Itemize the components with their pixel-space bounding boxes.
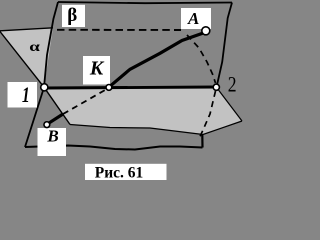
alpha right edge hidden behind beta (dashed) [187, 35, 216, 83]
svg-text:α: α [29, 39, 40, 55]
plane alpha fill (triangle part above line 1-2) [0, 28, 53, 87]
svg-text:Рис. 61: Рис. 61 [95, 164, 144, 181]
plane beta top edge [58, 2, 232, 3]
plane beta right edge lower solid tip [201, 135, 203, 148]
caption box [85, 164, 167, 180]
svg-text:A: A [187, 9, 199, 28]
alpha top edge hidden behind beta (dashed) [57, 29, 181, 31]
svg-text:1: 1 [22, 84, 30, 108]
label box K [83, 56, 110, 85]
plane alpha fill (part below line 1-2) [44, 87, 242, 135]
intersection line 1-2 (thick) [45, 87, 215, 88]
alpha right edge visible part below point 2 [219, 90, 243, 121]
point A [202, 27, 210, 35]
point K [106, 85, 112, 91]
thick segment B to crossing [49, 114, 64, 123]
thick segment A-K [111, 33, 203, 86]
dashed hidden segment crossing-K [63, 90, 106, 115]
point 2 [213, 84, 219, 90]
svg-text:β: β [67, 5, 77, 26]
label box 1 [8, 82, 38, 108]
svg-text:2: 2 [228, 73, 237, 97]
alpha top edge solid visible part [0, 28, 53, 31]
alpha bottom edge [70, 121, 242, 135]
alpha left edge [0, 32, 70, 125]
plane beta bottom edge (wavy) [25, 146, 203, 150]
point 1 [41, 84, 48, 91]
svg-text:K: K [89, 57, 105, 79]
label box B [38, 128, 67, 156]
plane beta right edge upper solid part (to point 2) [217, 3, 232, 86]
plane beta left edge (through point 1) [25, 2, 58, 147]
label box A [181, 8, 211, 29]
label box beta [62, 5, 85, 27]
svg-text:B: B [46, 127, 58, 146]
plane beta right edge hidden behind alpha (dashed) [199, 91, 215, 138]
point B [44, 122, 50, 128]
